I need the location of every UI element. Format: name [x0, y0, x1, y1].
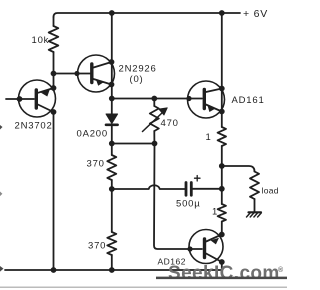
diode D1 0A200 — [106, 114, 118, 124]
svg-text:2N3702: 2N3702 — [15, 121, 53, 132]
left edge scan speckle 2 — [0, 192, 2, 197]
node 189b — [219, 186, 225, 192]
wire node166 to load — [222, 166, 255, 172]
node 10k bottom — [51, 71, 57, 77]
resistor R2 370 upper — [111, 144, 113, 156]
wire vertical from rail to 10k — [53, 17, 55, 26]
node rail-112b — [109, 267, 115, 273]
svg-text:1: 1 — [206, 132, 212, 143]
svg-text:®: ® — [278, 266, 284, 274]
node 166 — [219, 163, 225, 169]
wire AD162 collector to rail end — [221, 262, 223, 270]
svg-text:(0): (0) — [130, 74, 144, 85]
wire node189 to capacitor with hop over vertical wire — [112, 185, 185, 189]
node Q2 collector — [109, 59, 115, 65]
node Q2 circle edge — [74, 71, 79, 76]
node 470 bottom — [152, 141, 158, 147]
svg-text:load: load — [262, 186, 279, 196]
transistor Q3 AD161 — [188, 81, 225, 118]
svg-text:SeekIC.com: SeekIC.com — [168, 263, 280, 284]
wire 470 bottom down to AD162 base — [154, 144, 202, 250]
plus sign of capacitor — [195, 176, 201, 182]
svg-text:470: 470 — [161, 118, 179, 129]
resistor R4 1 upper — [218, 127, 226, 146]
node rail-53 — [51, 267, 57, 273]
svg-text:0A200: 0A200 — [77, 129, 108, 140]
node AD161 emitter — [219, 109, 225, 115]
transistor Q1 2N3702 — [19, 80, 56, 117]
arrow Q2 emitter (NPN, points out) — [96, 79, 104, 86]
wire node166 to node189 — [221, 166, 223, 204]
resistor R-load — [250, 172, 259, 200]
wire node73 to 2N2926 base — [54, 73, 91, 75]
node AD162 emitter — [219, 232, 225, 238]
arrow AD161 emitter (NPN, points out) — [207, 105, 215, 112]
node AD162 collector — [219, 259, 225, 265]
left edge scan speckle 1 — [0, 125, 3, 130]
wire input to 2N3702 base — [6, 98, 34, 100]
resistor 10k — [49, 26, 59, 52]
node diode bottom — [109, 141, 115, 147]
arrow of variable resistor 470 — [143, 112, 164, 132]
wire 10k bottom to node — [53, 52, 55, 74]
svg-text:+ 6V: + 6V — [243, 8, 268, 20]
wire top +6V rail — [54, 13, 241, 17]
svg-text:500µ: 500µ — [176, 199, 201, 210]
wire 2N3702 collector down to bottom rail — [53, 112, 55, 270]
wire node to 2N3702 emitter junction — [53, 74, 55, 89]
node Q1 emitter — [51, 85, 57, 91]
node rail-112 — [109, 10, 115, 16]
node Q1 base circle edge — [17, 96, 23, 102]
capacitor C1 500u — [185, 183, 188, 196]
node Q2 emitter — [109, 82, 115, 88]
node Q1 collector — [51, 109, 57, 115]
wire diode bottom node to 470 bottom — [112, 143, 155, 145]
svg-text:370: 370 — [87, 159, 105, 170]
node AD161 collector — [219, 86, 225, 92]
svg-text:2N2926: 2N2926 — [119, 64, 157, 75]
arrow Q1 emitter (PNP, points to base) — [41, 89, 50, 96]
resistor R5 1 lower — [218, 204, 226, 222]
node 470 top — [151, 96, 157, 102]
resistor VR1 470 — [153, 99, 155, 107]
node 189 — [109, 186, 115, 192]
bottom scan line — [0, 286, 287, 288]
arrow AD162 emitter (PNP, points to base) — [211, 238, 220, 245]
bottom rail — [5, 269, 222, 271]
svg-text:AD161: AD161 — [232, 95, 265, 106]
transistor Q2 2N2926 — [78, 55, 115, 92]
resistor R3 370 lower — [111, 189, 113, 232]
watermark underline — [156, 277, 287, 280]
left edge scan speckle 3 — [0, 266, 4, 272]
ground — [249, 211, 262, 213]
svg-text:1: 1 — [212, 207, 218, 218]
transistor Q4 AD162 — [189, 230, 223, 264]
wire vertical rail to diode — [111, 13, 113, 114]
node AD162 base circle edge — [187, 246, 192, 251]
node AD161 circle edge — [186, 96, 191, 101]
svg-text:10k: 10k — [32, 35, 50, 46]
node 98 — [109, 96, 115, 102]
wire node98 to AD161 base — [112, 98, 202, 100]
node rail-222 — [219, 10, 225, 16]
wire right vertical +6V to AD161 collector and down — [221, 13, 223, 127]
svg-text:370: 370 — [88, 241, 106, 252]
